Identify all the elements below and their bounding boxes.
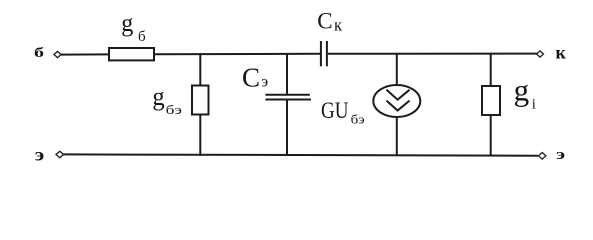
- svg-text:C: C: [317, 9, 332, 34]
- node terminal k (right top): [537, 51, 544, 57]
- capacitor C_k: [321, 41, 327, 66]
- resistor R3 g_i: [482, 86, 500, 115]
- wire g_be branch upper: [199, 53, 201, 86]
- wire g_be branch lower: [199, 114, 201, 156]
- svg-text:бэ: бэ: [166, 102, 183, 117]
- wire current source branch lower: [396, 116, 398, 156]
- current source U1 GU_be: [373, 85, 420, 117]
- svg-text:э: э: [261, 73, 268, 90]
- node terminal e (right bottom): [539, 153, 546, 160]
- node terminal b (left top): [54, 51, 61, 57]
- svg-text:б: б: [138, 29, 146, 45]
- svg-text:g: g: [121, 10, 133, 37]
- svg-text:к: к: [556, 43, 567, 63]
- svg-text:C: C: [242, 62, 260, 92]
- wire top rail left segment: [61, 53, 109, 55]
- svg-text:g: g: [514, 73, 530, 108]
- wire bottom rail: [63, 154, 538, 155]
- wire current source branch upper: [396, 53, 398, 86]
- resistor R2 g_be: [192, 86, 209, 115]
- wire C_e branch lower: [286, 100, 288, 157]
- svg-text:б: б: [34, 45, 44, 60]
- node terminal e (left bottom): [56, 151, 64, 158]
- wire g_i branch upper: [490, 53, 492, 87]
- svg-text:э: э: [35, 145, 45, 165]
- svg-text:g: g: [152, 82, 164, 111]
- svg-text:э: э: [556, 147, 565, 163]
- svg-text:GU: GU: [321, 98, 349, 123]
- svg-text:бэ: бэ: [351, 112, 365, 127]
- wire top rail right segment: [328, 53, 537, 55]
- resistor R1 g_b: [109, 48, 154, 60]
- wire C_e branch upper: [286, 53, 288, 95]
- wire g_i branch lower: [490, 114, 492, 156]
- svg-text:к: к: [334, 15, 343, 34]
- wire top rail middle segment: [154, 53, 320, 55]
- capacitor C_e: [265, 95, 311, 100]
- svg-text:i: i: [532, 97, 536, 113]
